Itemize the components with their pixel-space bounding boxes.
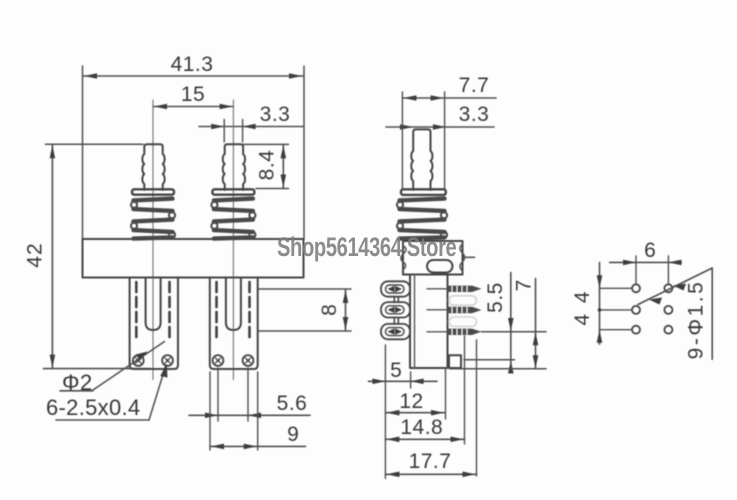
svg-text:9: 9 (287, 423, 299, 446)
pin row lines inside body (427, 288, 447, 290)
leader 9-phi1.5 vertical line (711, 268, 713, 359)
leg1 hidden dashes right (168, 282, 171, 342)
leg2 screw hole B (243, 355, 254, 366)
housing right tick (465, 256, 475, 258)
dim 12 line (385, 412, 445, 414)
leg hole cross marks (136, 358, 141, 363)
left terminal 1 (381, 281, 410, 296)
svg-text:7: 7 (513, 280, 536, 292)
plunger2 flange (212, 189, 254, 194)
dim 7.7 line (402, 97, 496, 99)
flange extension lines (401, 92, 403, 189)
hole r2c1 (632, 306, 640, 314)
leader 9-phi1.5 diagonal (638, 268, 712, 305)
svg-text:8: 8 (318, 304, 341, 316)
dim 5.5 extension bottom (464, 359, 515, 361)
dim 41.3 extension line left (82, 66, 84, 239)
side shaft (411, 129, 432, 190)
dim 5.6 line (189, 414, 310, 416)
hole r1c1 (632, 284, 640, 292)
plunger2 spring (214, 199, 253, 239)
svg-text:4: 4 (571, 291, 594, 303)
dim 42 line (51, 145, 53, 368)
dim 8 line (345, 290, 347, 331)
leg2 outline (210, 278, 258, 370)
svg-text:12: 12 (399, 390, 423, 413)
dim 8.4 line (282, 144, 284, 188)
dim 42 top extension (46, 143, 144, 145)
dim 8 bottom extension (259, 330, 352, 332)
leg1 screw hole A (133, 355, 144, 366)
dim 5.5 extension top (482, 331, 547, 333)
label 6-2.5x0.4 underline (56, 419, 149, 421)
side main body (410, 275, 448, 369)
svg-text:3.3: 3.3 (260, 103, 291, 126)
leg2 hidden dashes right (248, 282, 251, 342)
dim 17.7 line (385, 473, 476, 475)
plunger2 shaft extension lines (223, 120, 225, 143)
leg1 screw hole B (162, 355, 173, 366)
dim 7 line (535, 279, 537, 369)
dim 5 line (369, 380, 438, 382)
leg1 U slot (146, 278, 161, 331)
svg-text:15: 15 (181, 83, 205, 106)
centerline plunger1 (152, 100, 154, 380)
dim 15 line (153, 106, 233, 108)
leg2 U slot (226, 278, 241, 331)
svg-text:7.7: 7.7 (459, 74, 490, 97)
housing right rib (460, 244, 465, 271)
plunger1 flange (132, 189, 174, 194)
housing left rib (401, 246, 406, 270)
dim 9 edge extension lines (209, 372, 211, 450)
leg2 screw hole A (213, 355, 224, 366)
svg-text:4: 4 (571, 314, 594, 326)
svg-text:9-Φ1.5: 9-Φ1.5 (685, 280, 708, 360)
housing block (403, 241, 463, 275)
left terminal 3 (381, 324, 410, 339)
dim 8.4 bottom extension (256, 188, 289, 190)
right pin 1 (448, 286, 482, 292)
centerline plunger2 (232, 100, 234, 380)
hole r3c1 (632, 326, 640, 334)
dim 7 extension bottom (450, 368, 546, 370)
plunger1 spring (134, 199, 173, 239)
right pin ribs (452, 286, 467, 334)
row extension lines (600, 287, 632, 289)
svg-text:5.6: 5.6 (277, 392, 308, 415)
svg-text:8.4: 8.4 (256, 150, 279, 181)
dim 6 line (610, 261, 682, 263)
label phi2 underline (60, 390, 93, 392)
dim 8 top extension (259, 288, 352, 290)
dim 41.3 line (83, 75, 303, 77)
svg-text:6-2.5x0.4: 6-2.5x0.4 (46, 395, 140, 420)
leg1 outline (130, 278, 178, 370)
SIDE-VIEW-GROUP (369, 74, 547, 479)
svg-text:41.3: 41.3 (171, 53, 214, 76)
hole r2c2 (664, 306, 672, 314)
side spring (400, 199, 445, 239)
leg1 hidden dashes left (135, 282, 138, 342)
mounting peg (449, 355, 461, 368)
leg2 hidden dashes left (215, 282, 218, 342)
dim 3.3 front line (199, 126, 303, 128)
dim 4-4 line (599, 262, 601, 344)
hole r3c2 (664, 326, 672, 334)
dim 9 line (210, 445, 306, 447)
right pin 3 (448, 329, 482, 335)
dim 5.6 hole extension lines (217, 368, 219, 421)
terminal connecting tabs (393, 297, 395, 303)
dim 6 extension lines (635, 256, 637, 283)
svg-text:5: 5 (390, 359, 402, 382)
svg-text:3.3: 3.3 (459, 103, 490, 126)
bottom extension lines (384, 345, 386, 479)
plunger1 shaft (142, 144, 164, 190)
svg-text:14.8: 14.8 (400, 416, 443, 439)
PIN-LAYOUT-GROUP (571, 239, 712, 359)
dim 41.3 extension line right (303, 66, 305, 239)
dim 42 bottom extension (44, 368, 151, 370)
dim 14.8 line (385, 438, 464, 440)
right pin 2 (448, 307, 482, 313)
switch body rectangle (83, 239, 304, 278)
side flange (401, 189, 446, 195)
dim 8.4 top extension (244, 143, 289, 145)
housing slot (427, 260, 453, 273)
label 6-2.5x0.4 leader (149, 365, 166, 420)
svg-text:5.5: 5.5 (484, 282, 507, 313)
dim 5.5 line (510, 273, 512, 372)
svg-text:17.7: 17.7 (409, 450, 452, 473)
svg-text:42: 42 (24, 242, 47, 267)
ghost pin A (449, 296, 477, 305)
watermark (277, 232, 429, 263)
dim 3.3 side line (386, 126, 494, 128)
plunger2 shaft (223, 144, 245, 190)
FRONT-VIEW-GROUP (24, 53, 352, 450)
svg-text:6: 6 (644, 239, 656, 262)
ghost pin B (449, 317, 477, 326)
left terminal 2 (381, 302, 410, 317)
hole r1c2 (664, 284, 672, 292)
label phi2 leader (92, 342, 165, 392)
